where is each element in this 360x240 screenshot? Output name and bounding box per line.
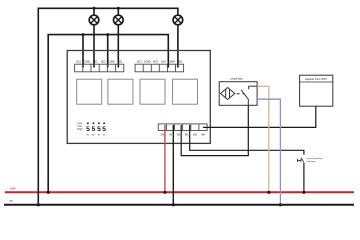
svg-text:Nn: Nn	[103, 135, 106, 137]
svg-text:NC4: NC4	[161, 62, 166, 64]
svg-text:NO1: NO1	[93, 62, 98, 64]
svg-text:wejście PLC IP67: wejście PLC IP67	[305, 77, 327, 81]
svg-text:High :: High :	[78, 128, 85, 131]
svg-text:+24V: +24V	[10, 187, 16, 191]
svg-text:krańcowy: krańcowy	[307, 160, 317, 163]
svg-text:COM2: COM2	[108, 62, 115, 64]
svg-text:NC1: NC1	[76, 62, 81, 64]
svg-text:przycisk przełącz.: przycisk przełącz.	[307, 157, 324, 160]
svg-text:NO3: NO3	[153, 62, 158, 64]
svg-text:COM4: COM4	[168, 62, 175, 64]
svg-text:NO2: NO2	[117, 62, 122, 64]
svg-text:5: 5	[102, 126, 106, 133]
svg-text:0V: 0V	[10, 199, 13, 203]
svg-text:COM3: COM3	[144, 62, 151, 64]
svg-text:NC3: NC3	[137, 62, 142, 64]
svg-text:0V: 0V	[169, 134, 172, 136]
svg-text:5: 5	[92, 126, 96, 133]
svg-text:COM1: COM1	[84, 62, 91, 64]
svg-text:NC2: NC2	[101, 62, 106, 64]
svg-text:czujnik pwp: czujnik pwp	[230, 78, 243, 81]
svg-text:5: 5	[97, 126, 101, 133]
svg-text:NO4: NO4	[177, 62, 182, 64]
svg-text:5: 5	[86, 126, 90, 133]
